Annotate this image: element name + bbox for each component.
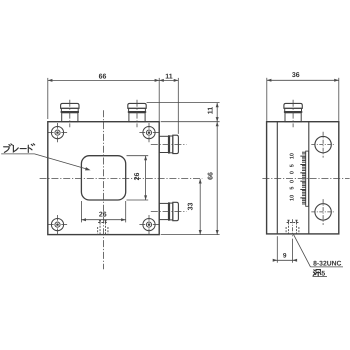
svg-text:66: 66 (99, 74, 107, 81)
svg-text:33: 33 (187, 203, 194, 211)
svg-text:10: 10 (290, 195, 296, 201)
svg-text:5: 5 (290, 164, 296, 167)
svg-text:11: 11 (208, 107, 215, 115)
svg-text:26: 26 (134, 173, 141, 181)
svg-text:11: 11 (165, 74, 173, 81)
svg-text:0: 0 (290, 180, 296, 183)
svg-text:66: 66 (207, 172, 214, 180)
svg-text:26: 26 (99, 212, 107, 219)
svg-text:8-32UNC: 8-32UNC (313, 260, 341, 267)
svg-text:5: 5 (321, 270, 325, 277)
svg-text:9: 9 (283, 253, 287, 260)
svg-text:10: 10 (290, 153, 296, 159)
svg-text:0: 0 (290, 171, 296, 174)
svg-text:36: 36 (292, 72, 300, 79)
svg-text:5: 5 (290, 187, 296, 190)
